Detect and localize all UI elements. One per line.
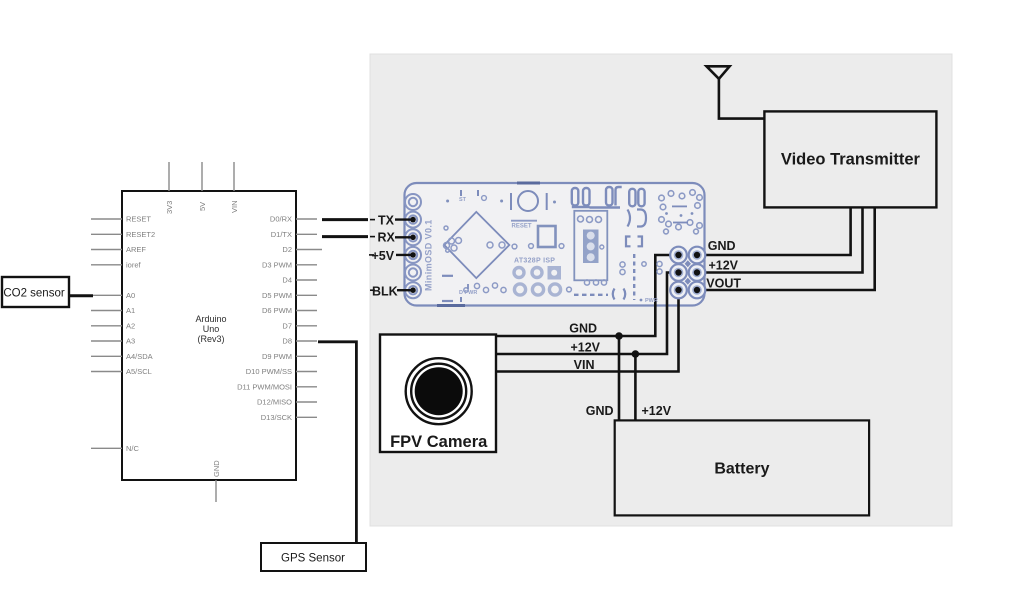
svg-text:+12V: +12V	[570, 340, 600, 354]
svg-text:+12V: +12V	[708, 259, 738, 273]
svg-text:AT328P ISP: AT328P ISP	[514, 258, 555, 265]
svg-text:N/C: N/C	[126, 444, 140, 453]
svg-text:RESET: RESET	[512, 224, 532, 230]
svg-text:D4: D4	[282, 276, 292, 285]
svg-text:D5 PWM: D5 PWM	[262, 291, 292, 300]
svg-text:RESET: RESET	[126, 215, 151, 224]
svg-text:D12/MISO: D12/MISO	[257, 398, 292, 407]
svg-text:D6 PWM: D6 PWM	[262, 306, 292, 315]
svg-text:FPV Camera: FPV Camera	[390, 433, 488, 451]
svg-text:A4/SDA: A4/SDA	[126, 352, 153, 361]
svg-text:D8: D8	[282, 337, 292, 346]
svg-text:3V3: 3V3	[165, 201, 174, 214]
svg-text:+12V: +12V	[642, 404, 672, 418]
svg-text:Arduino: Arduino	[195, 314, 226, 324]
svg-text:5V: 5V	[198, 202, 207, 211]
svg-text:Video Transmitter: Video Transmitter	[781, 151, 921, 169]
svg-text:PWR: PWR	[645, 298, 658, 304]
svg-text:A0: A0	[126, 291, 135, 300]
svg-text:CO2 sensor: CO2 sensor	[3, 288, 65, 300]
svg-text:A3: A3	[126, 337, 135, 346]
svg-text:GND: GND	[586, 404, 614, 418]
svg-text:Battery: Battery	[714, 461, 769, 478]
svg-text:D0/RX: D0/RX	[270, 215, 292, 224]
svg-text:BLK: BLK	[372, 284, 398, 298]
svg-text:A2: A2	[126, 321, 135, 330]
svg-text:D2: D2	[282, 245, 292, 254]
svg-text:ST: ST	[459, 197, 467, 203]
svg-text:RX: RX	[378, 231, 396, 245]
svg-text:D PWR: D PWR	[459, 290, 477, 296]
svg-text:D11 PWM/MOSI: D11 PWM/MOSI	[237, 382, 292, 391]
svg-text:GND: GND	[569, 322, 597, 336]
svg-text:(Rev3): (Rev3)	[197, 334, 224, 344]
svg-text:Uno: Uno	[203, 324, 220, 334]
svg-text:A5/SCL: A5/SCL	[126, 367, 152, 376]
svg-text:D13/SCK: D13/SCK	[261, 413, 292, 422]
svg-text:D9 PWM: D9 PWM	[262, 352, 292, 361]
svg-text:AREF: AREF	[126, 245, 146, 254]
svg-text:TX: TX	[378, 214, 395, 228]
svg-text:VOUT: VOUT	[706, 276, 741, 290]
svg-text:MinimOSD V0.1: MinimOSD V0.1	[424, 219, 434, 291]
svg-text:VIN: VIN	[230, 200, 239, 213]
svg-text:RESET2: RESET2	[126, 230, 155, 239]
svg-text:D7: D7	[282, 321, 292, 330]
svg-text:GPS Sensor: GPS Sensor	[281, 553, 345, 565]
svg-text:ioref: ioref	[126, 260, 142, 269]
svg-text:VIN: VIN	[574, 358, 595, 372]
svg-text:GND: GND	[212, 460, 221, 477]
svg-text:D1/TX: D1/TX	[271, 230, 292, 239]
svg-text:+5V: +5V	[372, 249, 395, 263]
svg-text:D10 PWM/SS: D10 PWM/SS	[246, 367, 292, 376]
svg-text:GND: GND	[708, 239, 736, 253]
svg-text:A1: A1	[126, 306, 135, 315]
svg-text:D3 PWM: D3 PWM	[262, 260, 292, 269]
